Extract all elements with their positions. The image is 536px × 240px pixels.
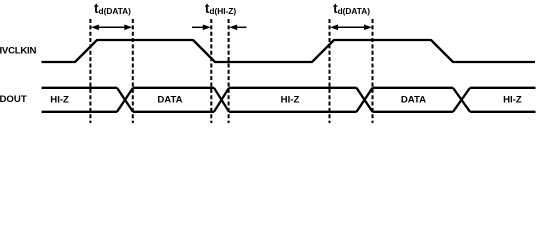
timing label td(HI-Z)	[205, 1, 236, 16]
dashed guide line C2 (DOUT hi-z start)	[228, 19, 230, 123]
dashed guide line C1 (clock fall 1)	[210, 19, 212, 123]
signal name DOUT	[0, 94, 27, 105]
svg-text:d(DATA): d(DATA)	[99, 6, 132, 16]
crossing 3	[357, 88, 373, 112]
svg-text:HI-Z: HI-Z	[503, 94, 522, 105]
svg-text:IVCLKIN: IVCLKIN	[0, 46, 36, 57]
segment 2 rails (DATA)	[133, 88, 214, 112]
timing label td(DATA) 1	[94, 1, 131, 16]
svg-text:HI-Z: HI-Z	[50, 94, 69, 105]
svg-text:DATA: DATA	[401, 94, 426, 105]
segment 4 rails (DATA)	[373, 88, 454, 112]
timing arrow td(HI-Z) left (points right at guide C1)	[192, 25, 211, 31]
signal name IVCLKIN	[0, 46, 36, 57]
svg-text:d(DATA): d(DATA)	[338, 6, 371, 16]
crossing 4	[453, 88, 470, 112]
bus state label HI-Z 1	[50, 94, 69, 105]
bus state label HI-Z 2	[281, 94, 300, 105]
svg-text:DATA: DATA	[157, 94, 182, 105]
bus state label HI-Z 3	[503, 94, 522, 105]
DOUT bus waveform rails and crossings	[42, 88, 536, 112]
dashed guide line A (clock rise 1)	[89, 19, 91, 123]
timing label td(DATA) 2	[333, 1, 370, 16]
timing arrow td(DATA) 1 (double-headed)	[91, 25, 132, 31]
svg-text:DOUT: DOUT	[0, 94, 27, 105]
clock waveform IVCLKIN	[42, 40, 536, 62]
bus state label DATA 2	[401, 94, 426, 105]
crossing 1	[117, 88, 133, 112]
segment 1 rails (HI-Z)	[42, 88, 118, 112]
svg-text:d(HI-Z): d(HI-Z)	[209, 6, 236, 16]
crossing 2	[214, 88, 229, 112]
dashed guide line D2 (DOUT data valid 2)	[372, 19, 374, 123]
svg-text:HI-Z: HI-Z	[281, 94, 300, 105]
timing arrow td(DATA) 2 (double-headed)	[330, 25, 372, 31]
segment 5 rails (HI-Z)	[470, 88, 536, 112]
segment 3 rails (HI-Z)	[229, 88, 357, 112]
bus state label DATA 1	[157, 94, 182, 105]
dashed guide line B (DOUT data valid 1)	[132, 19, 134, 123]
timing arrow td(HI-Z) right (points left at guide C2)	[229, 25, 246, 31]
dashed guide line D1 (clock rise 2)	[329, 19, 331, 123]
